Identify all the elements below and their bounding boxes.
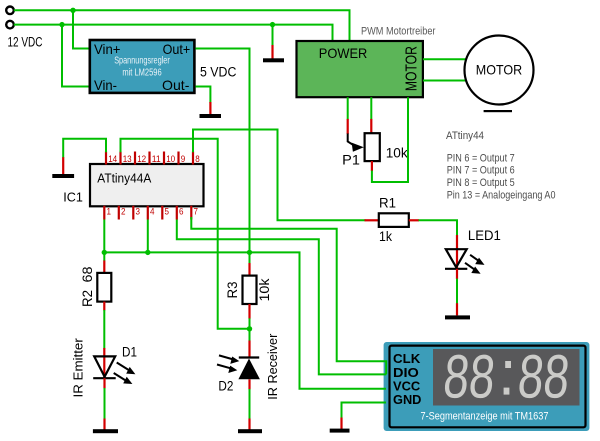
motor M1 [465,36,534,113]
wire pin 7 to display CLK [191,217,386,374]
U1 pin 3 (bottom) [133,206,140,220]
svg-text:10k: 10k [386,145,409,161]
wire R3 to D2 through node A0 [248,304,250,357]
IC U1 ATtiny44A body [90,164,204,206]
wire D2 to ground [248,379,250,429]
svg-text:8: 8 [195,154,200,164]
svg-text:9: 9 [181,154,186,164]
connector terminal +12V [6,7,14,15]
node 5V rail at R2 [102,250,107,255]
diode D2 IR receiver [217,355,260,379]
svg-text:Spannungsregler: Spannungsregler [114,56,170,67]
U1 pin 13 (top) [121,152,132,165]
connector terminal 0V [6,21,14,29]
node 5V rail at R3 [247,250,252,255]
ground G8 [330,429,350,433]
U1 pin 14 (top) [106,152,117,165]
svg-text:MOTOR: MOTOR [476,62,522,78]
wire D1 to ground [103,378,105,429]
wire motor lead B [423,80,466,82]
svg-text:Pin 13 = Analogeingang A0: Pin 13 = Analogeingang A0 [447,190,556,202]
svg-text:12: 12 [137,154,146,164]
U1 pin 1 (bottom) [104,206,111,220]
node junction +12V branch [70,8,75,13]
svg-text:LED1: LED1 [468,227,501,243]
ground G7 [238,429,262,433]
svg-text:1: 1 [107,207,112,217]
resistor R1 [365,213,420,227]
svg-text:10k: 10k [256,277,272,301]
wire pin 6 to display DIO [177,220,386,375]
wire pin 8 to R1 [193,130,366,221]
resistor R3 [243,276,257,304]
wire R2 to D1 [103,302,105,379]
svg-text:PIN 6 = Output 7: PIN 6 = Output 7 [447,152,515,164]
wire 5V rail across to display VCC [104,252,386,388]
svg-text:13: 13 [123,154,132,164]
wire 5V rail to R3 [249,252,251,275]
7-segment display module TM1637 [384,342,590,431]
svg-text:3: 3 [136,207,141,217]
node junction 0V branch to Vin- [59,22,64,27]
svg-text:ATtiny44: ATtiny44 [446,130,484,142]
U1 pin 10 (top) [164,152,175,165]
svg-text:D1: D1 [122,344,137,360]
U1 pin 11 (top) [150,152,161,165]
wire 0V branch down to ground [272,25,274,45]
svg-text:IC1: IC1 [63,190,83,205]
ground G1 [52,174,74,178]
svg-text:PIN 8 = Output 5: PIN 8 = Output 5 [447,177,515,189]
ground G3 [263,58,284,62]
svg-text:2: 2 [121,207,126,217]
svg-text:D2: D2 [218,377,233,393]
wire +12V branch to Vin+ [73,10,89,48]
svg-text:Vin-: Vin- [94,77,117,93]
svg-text:P1: P1 [342,151,360,167]
svg-text:68: 68 [79,266,95,282]
svg-text:Out-: Out- [162,77,190,93]
U1 pin 12 (top) [135,152,146,165]
wire Out- to ground [196,87,211,104]
U1 pin 7 (bottom) [191,206,198,220]
svg-text:5 VDC: 5 VDC [200,65,237,80]
svg-text:PIN 7 = Output 6: PIN 7 = Output 6 [447,164,515,176]
wire R1 to LED1 [419,220,458,235]
wire pin 4 to 5V rail [147,220,149,253]
diode D1 IR emitter LED [93,356,135,384]
svg-text:DIO: DIO [393,366,419,380]
U1 pin 5 (bottom) [162,206,169,220]
svg-text:7: 7 [194,207,199,217]
wire LED1 to ground [456,269,458,316]
U1 pin 4 (bottom) [148,206,155,220]
wire P1 bottom loop to driver [372,97,408,182]
svg-text:R3: R3 [224,281,240,298]
resistor R2 [97,273,111,302]
svg-text:4: 4 [150,207,155,217]
svg-text:14: 14 [108,154,117,164]
wire +12V rail to motor driver [14,10,350,41]
U1 pin 8 (top) [193,152,200,165]
node A0 junction at R3/D2 [247,326,252,331]
svg-text:MOTOR: MOTOR [404,46,421,91]
svg-text:IR Receiver: IR Receiver [265,333,280,400]
node junction 0V branch to ground [270,22,275,27]
wire pin 14 to ground [63,139,106,158]
svg-text:1k: 1k [379,229,392,244]
svg-text:IR Emitter: IR Emitter [71,338,86,398]
svg-text:88: 88 [441,343,498,412]
svg-text:ATtiny44A: ATtiny44A [97,170,151,185]
wire pin 1 / 5V to R2 [103,220,105,273]
svg-text:7-Segmentanzeige mit TM1637: 7-Segmentanzeige mit TM1637 [421,411,549,423]
wire pin 13 to analog node A0 [121,139,250,329]
svg-text:POWER: POWER [319,45,368,61]
node 5V rail at pin 4 [145,250,150,255]
PWM motor driver module [297,41,423,97]
svg-text:11: 11 [152,154,161,164]
U1 pin 2 (bottom) [119,206,126,220]
svg-text:10: 10 [166,154,175,164]
wire motor lead A [423,58,466,60]
svg-text:6: 6 [179,207,184,217]
svg-text:VCC: VCC [393,379,420,393]
potentiometer P1 [348,97,380,171]
wire display GND to ground [342,403,387,419]
ground G6 [93,429,118,433]
svg-text:R2: R2 [79,290,95,307]
svg-text:88: 88 [515,343,572,412]
voltage regulator module LM2596 [90,40,195,93]
svg-text:12 VDC: 12 VDC [8,34,43,49]
svg-text:mit LM2596: mit LM2596 [122,68,162,79]
svg-text:CLK: CLK [393,352,420,366]
svg-text:5: 5 [165,207,170,217]
svg-text:PWM Motortreiber: PWM Motortreiber [361,26,436,38]
ground G2 [200,114,222,118]
svg-text:GND: GND [393,393,421,407]
wire 0V rail to motor driver [14,25,333,42]
svg-text:R1: R1 [379,196,396,211]
wire 0V branch to Vin- [62,25,89,87]
ground G5 [445,315,470,319]
wire Out+ 5V down to rail [196,49,250,253]
U1 pin 9 (top) [179,152,186,165]
U1 pin 6 (bottom) [177,206,184,220]
LED LED1 [445,249,485,274]
